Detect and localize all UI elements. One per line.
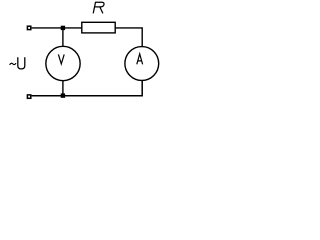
background	[0, 0, 165, 105]
voltmeter V	[46, 46, 80, 80]
resistor label R	[93, 2, 104, 13]
terminal (bottom-left input)	[27, 95, 30, 98]
node junction top	[61, 26, 65, 30]
wire top (terminal to resistor, to top-right corner, down to ammeter)	[32, 28, 143, 47]
resistor R	[82, 22, 115, 33]
terminal (top-left input)	[27, 26, 30, 29]
ammeter A	[125, 47, 159, 81]
node junction bottom	[61, 93, 65, 97]
wire voltmeter branch bottom	[62, 81, 64, 96]
wire voltmeter branch top	[62, 28, 64, 47]
source label ~U	[10, 63, 16, 65]
wire bottom (terminal to bottom-right corner, up to ammeter)	[32, 81, 143, 96]
